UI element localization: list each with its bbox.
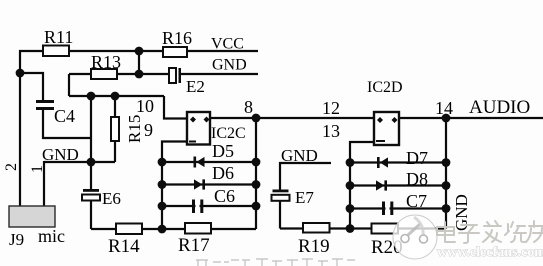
node ladder1 left C6: [158, 202, 167, 211]
svg-text:10: 10: [136, 96, 154, 116]
node mid rail at R15 top: [111, 92, 120, 101]
svg-text:GND: GND: [42, 145, 79, 164]
wire D6 row: [162, 183, 256, 185]
resistor R20: [372, 224, 399, 234]
wire R15 top lead: [114, 96, 116, 117]
op-amp IC2D: [374, 112, 399, 145]
resistor R15: [111, 117, 119, 141]
svg-text:R19: R19: [298, 236, 330, 257]
char zi: [459, 225, 479, 243]
char dian: [437, 222, 455, 242]
svg-text:9: 9: [144, 120, 153, 140]
wire E6 bottom lead: [90, 201, 92, 229]
wire VCC-to-R13 vertical link: [138, 51, 140, 74]
svg-text:E7: E7: [295, 188, 314, 207]
resistor R11: [43, 46, 69, 57]
svg-text:GND: GND: [281, 146, 318, 165]
svg-text:R14: R14: [108, 236, 140, 257]
node pin14 junction: [442, 114, 451, 123]
wire net1 vertical: [43, 161, 45, 207]
svg-text:GND: GND: [212, 57, 247, 74]
svg-text:13: 13: [322, 121, 340, 141]
wire AUDIO rail: [210, 117, 543, 119]
wire pin13 lead: [350, 142, 374, 229]
resistor R13: [91, 69, 117, 79]
svg-text:D5: D5: [212, 141, 234, 161]
wire pin10 lead: [164, 96, 187, 119]
wire R13/E2 rail: [69, 73, 258, 75]
op-amp IC2C: [187, 112, 210, 145]
wire D8 row: [350, 184, 446, 186]
wire C4 branch top: [20, 73, 43, 100]
node ladder2 right D7: [442, 158, 451, 167]
node GND row E6 tap: [87, 158, 96, 167]
node ladder1 left D6: [158, 180, 167, 189]
node ladder1 left bottom: [158, 225, 167, 234]
node ladder2 right D8: [442, 181, 451, 190]
node ladder1 right C6: [252, 202, 261, 211]
wire C6 row: [162, 205, 256, 207]
resistor R16: [163, 47, 187, 57]
char shao: [505, 222, 526, 242]
wire VCC top rail: [19, 50, 258, 52]
node ladder1 left D5: [158, 158, 167, 167]
node junction dots: [16, 47, 451, 234]
svg-text:mic: mic: [38, 226, 65, 246]
svg-text:C7: C7: [406, 191, 427, 211]
watermark text elecfans chinese (vector approximation): [437, 221, 543, 243]
node ladder1 right D5: [252, 158, 261, 167]
resistor R17: [185, 223, 211, 234]
wire node91 vertical: [90, 96, 92, 162]
svg-text:R17: R17: [178, 235, 210, 256]
wire ladder1 right column: [255, 118, 257, 229]
wire GND stub middle: [280, 163, 331, 190]
svg-text:2: 2: [3, 163, 20, 171]
wire R13 left lead down: [68, 74, 70, 96]
wire net2 left vertical: [19, 50, 21, 207]
diode D7: [377, 157, 388, 168]
node R13/E2 junction: [135, 70, 144, 79]
svg-text:R15: R15: [125, 115, 144, 143]
wire C4 bottom to node: [43, 110, 91, 138]
node ladder2 right C7: [442, 204, 451, 213]
svg-text:1: 1: [29, 165, 46, 173]
char you (cut at right edge): [526, 221, 543, 242]
svg-text:8: 8: [244, 97, 253, 117]
svg-text:AUDIO: AUDIO: [469, 97, 530, 118]
wire D5 row: [162, 161, 256, 163]
wire E7 bottom lead: [279, 202, 281, 229]
wire mid rail y96: [69, 95, 164, 97]
svg-text:www.elecfans.com: www.elecfans.com: [437, 245, 543, 260]
char fa: [483, 221, 501, 242]
node ladder2 left bottom: [346, 224, 355, 233]
resistor R19: [303, 223, 330, 233]
capacitor E2: [169, 66, 181, 84]
wire C7 row: [350, 207, 446, 209]
connector J9: [9, 206, 55, 227]
wire E6 top lead: [90, 162, 92, 189]
node mid rail at x91: [87, 92, 96, 101]
wire GND row left: [44, 161, 115, 163]
svg-text:IC2D: IC2D: [367, 79, 403, 96]
node ladder2 left C7: [346, 204, 355, 213]
svg-text:C6: C6: [214, 186, 235, 206]
node left rail C4 tap: [16, 69, 25, 78]
diode D5: [194, 157, 205, 168]
wire bottom row 1: [91, 228, 256, 230]
diode D8: [376, 180, 387, 190]
wire R15 bottom lead: [114, 141, 116, 162]
svg-text:VCC: VCC: [211, 36, 244, 53]
capacitor C7: [382, 202, 393, 216]
wire ladder1 left column: [162, 142, 187, 230]
svg-text:R13: R13: [91, 52, 121, 72]
svg-text:D8: D8: [406, 169, 428, 189]
capacitor E7: [272, 190, 290, 201]
node pin8 junction: [252, 114, 261, 123]
svg-text:IC2C: IC2C: [211, 125, 246, 142]
svg-text:D6: D6: [212, 163, 234, 183]
capacitor C4: [36, 100, 54, 110]
node ladder2 left D8: [346, 181, 355, 190]
watermark logo circle: [393, 215, 437, 259]
node ladder1 right D6: [252, 180, 261, 189]
svg-text:J9: J9: [9, 230, 24, 249]
svg-text:R16: R16: [162, 28, 192, 48]
svg-text:12: 12: [322, 98, 340, 118]
svg-text:C4: C4: [54, 106, 75, 126]
svg-text:R11: R11: [44, 27, 73, 47]
wire ladder2 right column: [445, 118, 447, 229]
svg-text:D7: D7: [406, 148, 428, 168]
node VCC/R16 junction: [135, 47, 144, 56]
capacitor E6: [82, 189, 100, 201]
svg-text:E6: E6: [102, 189, 121, 208]
caption bottom (cropped glyph tops, drawn as vector marks): [196, 259, 355, 266]
wire bottom row 2: [280, 227, 446, 229]
node ladder2 left D7: [346, 158, 355, 167]
svg-text:E2: E2: [186, 77, 205, 96]
resistor R14: [116, 224, 142, 235]
diode D6: [194, 179, 205, 189]
svg-text:14: 14: [435, 98, 453, 118]
capacitor C6: [192, 200, 203, 214]
wire D7 row: [350, 161, 446, 163]
